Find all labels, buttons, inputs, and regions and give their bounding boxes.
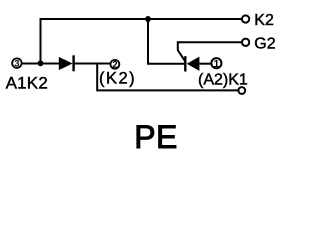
- svg-text:(A2)K1: (A2)K1: [198, 71, 248, 88]
- svg-text:K2: K2: [254, 12, 274, 29]
- svg-text:3: 3: [14, 58, 19, 68]
- svg-text:G2: G2: [254, 35, 275, 52]
- svg-text:A1K2: A1K2: [6, 73, 48, 92]
- svg-text:2: 2: [112, 60, 117, 70]
- svg-text:1: 1: [213, 58, 219, 70]
- svg-text:PE: PE: [134, 119, 177, 155]
- svg-text:(K2): (K2): [99, 69, 136, 87]
